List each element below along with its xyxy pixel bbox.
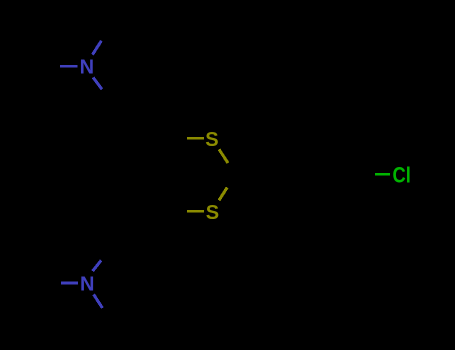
bond N1 - methyl left <box>60 65 78 68</box>
bond S1 - central CH (half) <box>219 149 228 163</box>
svg-text:Cl: Cl <box>393 163 411 188</box>
bond S2 - methyl left <box>187 210 204 213</box>
bond S2 - central CH (half) <box>219 187 227 200</box>
bond N1 - methyl upper-right <box>93 41 102 55</box>
bond N2 - methyl upper-right <box>93 260 102 271</box>
bond S1 - methyl left <box>187 137 204 140</box>
svg-text:N: N <box>80 57 94 79</box>
bond Cl - ring carbon (half) <box>375 173 390 176</box>
svg-text:N: N <box>80 274 94 296</box>
bond N2 - methyl left <box>61 282 78 285</box>
svg-text:S: S <box>205 129 218 151</box>
bond N1 - methyl lower-right <box>93 77 102 89</box>
svg-text:S: S <box>206 202 219 224</box>
bond N2 - methyl lower-right <box>94 294 103 308</box>
